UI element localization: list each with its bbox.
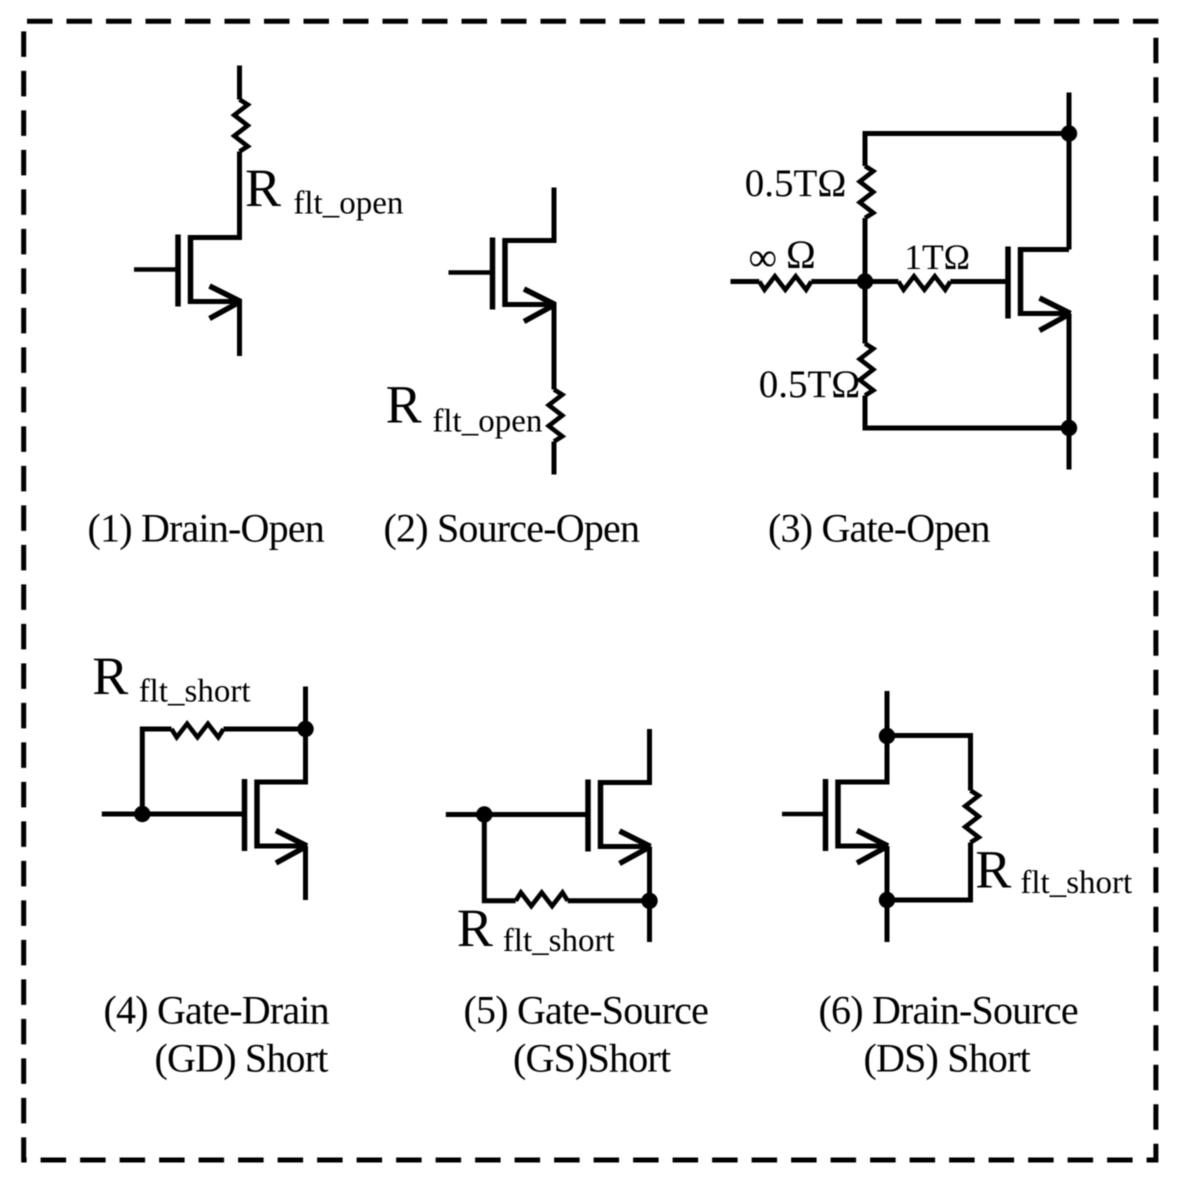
resistor 1T C3 [898, 276, 950, 290]
wire left rail lower C3 [865, 396, 1069, 429]
node source junction C5 [641, 893, 657, 909]
resistor infinity C3 [759, 276, 811, 290]
svg-text:0.5TΩ: 0.5TΩ [759, 363, 861, 406]
node gate junction C3 [857, 273, 873, 289]
wire left rail middle C3 [863, 218, 868, 344]
svg-text:(4) Gate-Drain: (4) Gate-Drain [104, 988, 330, 1033]
resistor Rflt_open C2 [549, 390, 563, 442]
svg-text:flt_open: flt_open [293, 185, 403, 221]
svg-text:1TΩ: 1TΩ [904, 237, 970, 277]
svg-text:R: R [975, 840, 1011, 900]
wire top right C4 [224, 727, 306, 732]
svg-text:(1) Drain-Open: (1) Drain-Open [88, 506, 325, 551]
svg-text:(3) Gate-Open: (3) Gate-Open [768, 506, 991, 551]
wire source bottom C2 [552, 442, 557, 475]
svg-text:R: R [386, 374, 422, 434]
wire gate right C3 [950, 279, 1005, 284]
svg-text:(GD) Short: (GD) Short [155, 1036, 329, 1081]
svg-text:(DS) Short: (DS) Short [864, 1036, 1031, 1081]
transistor M5 [588, 780, 651, 864]
transistor M1 [134, 235, 241, 319]
wire gate C5 [446, 812, 586, 817]
wire top left C4 [142, 729, 171, 814]
wire source to resistor C2 [505, 305, 554, 390]
resistor 0.5T lower C3 [860, 344, 874, 396]
resistor Rflt_open C1 [234, 100, 248, 152]
wire gate middle C3 [811, 279, 898, 284]
node drain junction C6 [879, 728, 895, 744]
resistor Rflt_short C6 [965, 791, 979, 843]
wire right rail drain C3 [1067, 93, 1072, 250]
wire top horizontal C6 [887, 736, 971, 791]
wire drain top C2 [505, 188, 554, 241]
wire bottom right C5 [568, 898, 650, 903]
wire drain vertical C6 [885, 691, 890, 785]
svg-text:0.5TΩ: 0.5TΩ [745, 162, 847, 205]
resistor Rflt_short C5 [516, 893, 568, 907]
svg-text:(2) Source-Open: (2) Source-Open [384, 506, 640, 551]
label Rflt_short C6 [975, 840, 1132, 902]
transistor M2 [449, 238, 556, 322]
wire drain vertical C4 [303, 687, 308, 785]
svg-text:flt_short: flt_short [139, 674, 251, 710]
svg-text:R: R [92, 646, 128, 706]
svg-text:flt_short: flt_short [503, 923, 615, 959]
label Rflt_open C1 [245, 158, 403, 222]
wire right rail source C3 [1067, 314, 1072, 470]
svg-text:(GS)Short: (GS)Short [513, 1036, 671, 1081]
svg-text:R: R [245, 158, 281, 218]
svg-text:(5) Gate-Source: (5) Gate-Source [464, 988, 709, 1033]
resistor Rflt_short C4 [172, 724, 224, 738]
node drain junction C4 [297, 721, 313, 737]
wire drain top C1 [237, 66, 242, 100]
wire source bottom C1 [191, 302, 240, 357]
transistor M6 [782, 779, 888, 863]
svg-text:flt_short: flt_short [1020, 865, 1132, 901]
wire drain to M1 [191, 152, 240, 238]
wire gate C4 [102, 812, 242, 817]
label Rflt_open C2 [386, 374, 543, 439]
label Rflt_short C4 [92, 646, 250, 710]
label Rflt_short C5 [457, 898, 615, 959]
svg-text:R: R [457, 898, 493, 958]
wire left vertical C5 [484, 815, 515, 901]
svg-text:(6) Drain-Source: (6) Drain-Source [819, 988, 1078, 1033]
transistor M3 [1008, 247, 1071, 331]
svg-text:flt_open: flt_open [432, 404, 542, 440]
wire source vertical C6 [885, 846, 890, 942]
svg-text:Ω: Ω [786, 232, 816, 277]
node drain junction C3 [1061, 125, 1077, 141]
svg-text:∞: ∞ [749, 235, 778, 280]
wire top rail C3 [865, 134, 1069, 167]
wire drain top C5 [647, 729, 652, 785]
resistor 0.5T upper C3 [860, 166, 874, 218]
node source junction C3 [1061, 420, 1077, 436]
transistor M4 [245, 779, 308, 863]
wire source bottom C4 [303, 846, 308, 900]
wire right lower C6 [887, 843, 971, 901]
wire source bottom C5 [647, 847, 652, 943]
node gate junction C4 [134, 806, 150, 822]
wire gate left stub C3 [731, 279, 760, 284]
node gate junction C5 [476, 806, 492, 822]
node source junction C6 [879, 892, 895, 908]
